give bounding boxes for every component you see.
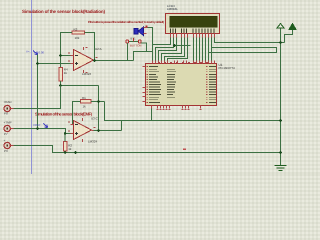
svg-text:+TMP: +TMP	[4, 121, 12, 125]
junction feedback/output	[97, 129, 100, 132]
wire harness cross link	[175, 45, 191, 47]
junction right vertical at ground rail	[279, 151, 282, 154]
junction right vertical at VDD rail	[279, 41, 282, 44]
LCD screen	[170, 16, 218, 27]
power symbol (hollow arrow)	[277, 24, 284, 29]
op-amp U3:C polarity marks	[75, 125, 78, 135]
U1 bottom pin numbers	[157, 109, 202, 110]
junction R2 bottom on ground rail	[64, 151, 67, 154]
svg-text:Simulation of the sensor block: Simulation of the sensor block(Radiation…	[22, 9, 105, 14]
wire rail B	[209, 48, 277, 53]
wire op2 output	[94, 130, 122, 132]
wire D1	[196, 38, 198, 61]
junction on harness	[173, 44, 176, 47]
junction ground rail op2	[74, 151, 77, 154]
voltage probe radiation (blue)	[33, 51, 38, 55]
op-amp U3:C pin numbers	[68, 122, 95, 132]
svg-text:1k: 1k	[68, 147, 72, 151]
wire probe riser	[37, 55, 39, 129]
wire D0	[193, 38, 195, 61]
ground symbol	[275, 166, 287, 171]
power arrow 2 stem	[285, 30, 293, 43]
svg-text:LM324: LM324	[88, 139, 98, 143]
junction op1 output	[93, 59, 96, 62]
button BT1	[126, 38, 141, 43]
U1 interior pin-name text (right column)	[209, 66, 216, 103]
wire RS	[162, 38, 182, 61]
junction feedback node	[59, 54, 62, 57]
terminal +EMF	[4, 142, 14, 148]
wire D3	[202, 38, 204, 61]
U1 interior pin numbers (red, both edges)	[147, 62, 209, 103]
op2 output riser to rail	[121, 121, 123, 131]
wire R2 top	[64, 134, 66, 142]
op-amp U2:A body	[74, 50, 94, 71]
svg-text:PIC16F877A: PIC16F877A	[219, 66, 236, 70]
op-amp U2:A pin numbers	[68, 47, 97, 73]
bottom rail mid	[105, 102, 281, 121]
wire R4 bottom to node	[61, 81, 99, 86]
wire D2	[199, 38, 201, 61]
svg-text:U3:C: U3:C	[91, 116, 99, 120]
wire VDD	[156, 38, 174, 61]
svg-text:VOUT: VOUT	[33, 123, 41, 127]
LCD pin stubs	[171, 34, 215, 38]
svg-text:V=..: V=..	[26, 49, 31, 53]
wire op1 output to center	[95, 60, 134, 62]
svg-text:1k: 1k	[83, 104, 87, 108]
svg-text:+RAD: +RAD	[4, 100, 13, 104]
wire sounder to U1 pin	[148, 28, 153, 45]
wire to non-inverting input	[38, 63, 71, 65]
wire staircase to U1	[147, 51, 153, 53]
net label tick on ground rail	[183, 149, 186, 151]
wire R2 bottom	[64, 151, 66, 153]
junction riser on +TMP wire	[36, 127, 39, 130]
ground rail bottom	[11, 146, 281, 153]
op-amp U3:C pin stubs	[71, 118, 94, 142]
wires: LCD to U1 harness	[153, 38, 285, 61]
wire button left to op1 output line	[127, 60, 133, 62]
op-amp U2:A input polarity marks	[75, 56, 78, 66]
svg-text:LM324: LM324	[82, 72, 92, 76]
wire D6	[211, 38, 213, 61]
junction op2 out / R4 net	[97, 129, 100, 132]
svg-text:U2:A: U2:A	[95, 47, 102, 51]
svg-text:BUTTON: BUTTON	[130, 43, 141, 47]
U1 interior pin-name text (middle column)	[167, 69, 176, 98]
svg-text:0.00: 0.00	[39, 51, 45, 55]
wire inverting input to feedback node	[61, 55, 71, 57]
power symbol (filled arrow)	[289, 24, 296, 30]
op-amp U2:A pin stubs	[71, 47, 96, 73]
terminal +RAD	[4, 105, 14, 111]
resistor R1 (feedback, horizontal)	[81, 100, 92, 103]
svg-text:Simulation of the sensor block: Simulation of the sensor block(EMF)	[35, 111, 93, 116]
U1 left pin stubs	[143, 67, 146, 102]
junction feedback node op3	[97, 100, 100, 103]
svg-text:If the button is pressed the r: If the button is pressed the radiation w…	[88, 20, 164, 24]
LCD pin name labels (vertical tiny text)	[170, 29, 214, 33]
svg-text:P8: P8	[4, 112, 8, 116]
svg-text:P7: P7	[4, 132, 8, 136]
svg-text:LM016L: LM016L	[167, 7, 178, 11]
wire +RAD to riser	[14, 86, 61, 109]
terminal +TMP	[4, 125, 14, 131]
U1 interior pin-name text (left column)	[149, 66, 161, 103]
op-amp U3:C body	[74, 121, 92, 140]
wire D4	[205, 38, 207, 61]
wire node down to op2 output net	[98, 86, 100, 131]
U1 bottom pin stubs	[152, 106, 201, 109]
U1 top pin stubs	[153, 61, 215, 64]
wire RW	[165, 38, 185, 61]
power rail wires top right	[11, 28, 293, 166]
main right vertical net	[280, 43, 282, 166]
wire +TMP to op2	[14, 129, 71, 134]
wire VEE	[159, 38, 177, 61]
junction probe riser	[36, 62, 39, 65]
sounder SP1 (blue speaker)	[134, 26, 148, 36]
junction R2 top	[64, 132, 67, 135]
svg-text:10k: 10k	[75, 36, 80, 40]
voltage probe VOUT (blue)	[44, 124, 48, 128]
svg-text:P9: P9	[4, 149, 8, 153]
wire D5	[208, 38, 210, 61]
wire feedback op2	[73, 102, 105, 125]
wire VSS	[153, 38, 171, 61]
U1 bottom pin wire	[151, 109, 153, 121]
wire center staircase	[134, 43, 147, 61]
wire D7 to VDD rail	[215, 38, 285, 43]
resistor R4 (vertical)	[59, 68, 62, 82]
power arrow VCC stem	[280, 28, 282, 43]
LCD LCD4 body	[166, 14, 220, 34]
wire button left leg	[126, 43, 128, 61]
wire E	[168, 38, 188, 61]
wire feedback top	[61, 33, 95, 68]
junction right vertical at mid rail	[279, 119, 282, 122]
resistor R2 (vertical)	[63, 142, 66, 152]
svg-text:1k: 1k	[64, 71, 68, 75]
svg-text:+: +	[4, 138, 6, 142]
sheet border	[31, 0, 33, 174]
resistor R3 (feedback, horizontal)	[72, 31, 85, 34]
junction R4/+RAD	[59, 84, 62, 87]
microcontroller U1 body	[146, 64, 217, 106]
